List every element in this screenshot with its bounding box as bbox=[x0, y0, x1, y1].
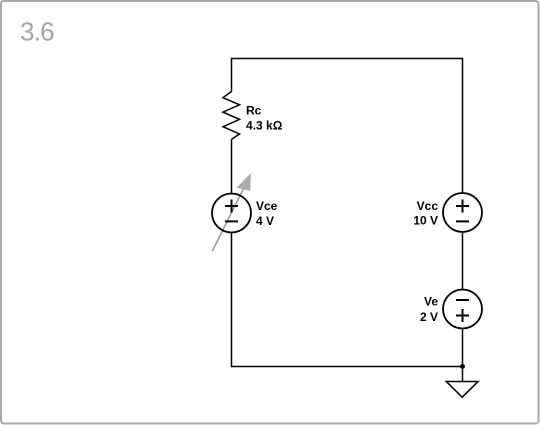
wire right middle (Vcc to Ve) bbox=[462, 232, 464, 290]
Vce minus sign bbox=[225, 220, 238, 222]
Vcc plus sign bbox=[456, 200, 469, 213]
svg-text:2 V: 2 V bbox=[420, 310, 438, 324]
variable-source arrowhead bbox=[237, 173, 251, 191]
svg-text:Vcc: Vcc bbox=[417, 199, 439, 213]
source Vcc circle bbox=[443, 193, 482, 232]
wire left lower (Vce to bottom) bbox=[231, 233, 233, 368]
wire left upper (top to resistor) bbox=[231, 58, 233, 92]
variable-source arrow shaft bbox=[212, 188, 244, 252]
svg-text:Ve: Ve bbox=[424, 295, 438, 309]
wire bottom horizontal bbox=[232, 366, 463, 368]
wire right upper (top to Vcc) bbox=[462, 58, 464, 193]
wire right lower (Ve to ground) bbox=[462, 329, 464, 382]
Vce plus sign bbox=[225, 200, 238, 213]
wire left middle (resistor to Vce) bbox=[231, 139, 233, 193]
resistor Rc bbox=[223, 92, 240, 140]
junction node bbox=[460, 364, 465, 369]
Ve minus sign bbox=[456, 299, 469, 301]
ground bbox=[446, 382, 478, 398]
svg-text:Vce: Vce bbox=[256, 199, 278, 213]
svg-text:4 V: 4 V bbox=[256, 214, 274, 228]
Ve plus sign bbox=[456, 309, 469, 322]
svg-text:4.3 kΩ: 4.3 kΩ bbox=[246, 119, 283, 133]
source Ve circle bbox=[443, 290, 482, 329]
svg-text:Rc: Rc bbox=[246, 104, 262, 118]
svg-text:10 V: 10 V bbox=[413, 214, 438, 228]
svg-text:3.6: 3.6 bbox=[20, 17, 54, 47]
source Vce circle bbox=[212, 194, 251, 233]
wire top horizontal bbox=[232, 58, 463, 60]
Vcc minus sign bbox=[456, 220, 469, 222]
